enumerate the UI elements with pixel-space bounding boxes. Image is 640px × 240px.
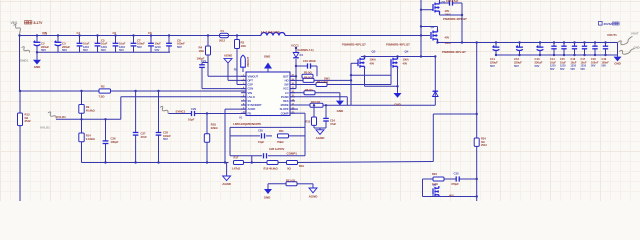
resistor R19: [287, 161, 298, 165]
svg-text:50V: 50V: [101, 48, 106, 52]
svg-text:50V: 50V: [571, 67, 576, 71]
svg-text:UVLO: UVLO: [248, 95, 255, 99]
capacitor C11: [495, 41, 497, 43]
diode D1: [295, 48, 297, 53]
svg-text:FB: FB: [248, 111, 252, 115]
svg-text:R10 0Ω: R10 0Ω: [311, 100, 321, 104]
resistor R8: [290, 92, 304, 94]
transistor Q4: [390, 59, 392, 66]
resistor R5b on BST row: [302, 74, 313, 78]
svg-text:RES: RES: [283, 99, 289, 103]
ic U1 LM5122: [246, 72, 290, 116]
wire output cap bottom rail: [496, 54, 618, 56]
capacitor C28: [263, 153, 265, 158]
svg-text:VIN/OUT: VIN/OUT: [246, 56, 250, 67]
capacitor C16: [573, 41, 575, 43]
capacitor C17: [583, 41, 585, 43]
capacitor C21: [201, 63, 203, 65]
svg-text:40V: 40V: [449, 194, 454, 198]
svg-text:AGND: AGND: [316, 136, 326, 140]
agnd mid right: [319, 128, 321, 130]
svg-text:100pF: 100pF: [111, 140, 119, 144]
capacitor C27: [135, 91, 137, 133]
svg-text:R7 4.7kΩ: R7 4.7kΩ: [317, 80, 329, 84]
wire input cap bottom rail: [37, 51, 170, 53]
svg-text:GND: GND: [34, 65, 41, 69]
svg-text:C22 4.7uF: C22 4.7uF: [446, 0, 459, 3]
svg-text:AGND: AGND: [309, 195, 319, 199]
svg-text:C4: C4: [77, 31, 81, 35]
svg-text:R2: R2: [101, 85, 105, 89]
resistor R9: [80, 90, 82, 92]
svg-text:AGND: AGND: [222, 182, 232, 186]
svg-text:40.9kΩ: 40.9kΩ: [86, 109, 96, 113]
resistor R21 bridge: [268, 183, 286, 185]
resistor R4: [207, 34, 209, 36]
wire comp loop: [230, 126, 305, 128]
resistor R17: [234, 161, 244, 165]
wire SLOPE stub: [290, 108, 298, 110]
svg-text:GND: GND: [614, 61, 621, 65]
testpoint TP1 at U1 top: [241, 55, 246, 67]
svg-text:R17: R17: [234, 156, 239, 160]
capacitor C30: [455, 176, 457, 181]
svg-text:50V: 50V: [41, 48, 46, 52]
svg-text:Q3: Q3: [372, 50, 376, 54]
port SYNC1 squiggle: [160, 106, 168, 113]
svg-text:50V: 50V: [535, 64, 540, 68]
ground power: [397, 92, 399, 94]
svg-text:BST: BST: [283, 74, 289, 78]
label 36V6A output: [599, 22, 603, 26]
wire VCC pin: [290, 88, 296, 90]
capacitor C19: [296, 65, 308, 67]
transistor Q5: [432, 188, 434, 194]
svg-text:40V: 40V: [445, 9, 450, 13]
port GND2 squiggle: [619, 49, 635, 55]
svg-text:VOUT: VOUT: [631, 32, 639, 36]
svg-text:F1: F1: [221, 29, 225, 33]
svg-text:LM5122QMK/NOPB: LM5122QMK/NOPB: [233, 122, 261, 126]
svg-text:PSMN0R2-40PL127: PSMN0R2-40PL127: [442, 50, 466, 54]
svg-text:GND: GND: [634, 46, 640, 50]
wire SW from L1: [285, 35, 430, 37]
wire LO to gnd: [339, 93, 341, 101]
label input 8-17V: [25, 21, 28, 24]
svg-text:SYNC1: SYNC1: [176, 109, 186, 113]
capacitor C26: [105, 119, 107, 141]
svg-text:C8: C8: [148, 31, 152, 35]
wire fb tap: [432, 114, 434, 162]
svg-text:7.5Ω: 7.5Ω: [99, 95, 106, 99]
svg-text:470pF: 470pF: [451, 182, 459, 186]
port VOUT2 squiggle: [618, 37, 633, 45]
wire R3 to CSP pin: [236, 60, 238, 85]
svg-text:40V: 40V: [445, 36, 450, 40]
capacitor C24: [325, 104, 327, 106]
agnd on bus: [226, 163, 228, 177]
wire VOUT rail: [438, 42, 618, 44]
svg-text:D1: D1: [300, 53, 304, 57]
svg-text:PSMN0R2-40PL127: PSMN0R2-40PL127: [386, 43, 410, 47]
svg-text:R19: R19: [299, 164, 304, 168]
resistor R24: [474, 138, 479, 146]
resistor R12: [313, 104, 315, 106]
wire VIN rail: [20, 35, 221, 37]
svg-text:100A: 100A: [403, 57, 409, 61]
svg-text:100A: 100A: [370, 57, 376, 61]
svg-text:VIN: VIN: [42, 32, 48, 36]
svg-text:C6: C6: [113, 31, 117, 35]
svg-text:50V: 50V: [83, 48, 88, 52]
svg-text:PGND: PGND: [281, 95, 289, 99]
wire Q2 drain: [437, 27, 439, 30]
wire Q2 source to vout rail: [437, 42, 439, 43]
wire Q3 Q4 sources link: [364, 69, 366, 87]
capacitor C5: [96, 34, 98, 36]
capacitor C18: [594, 41, 596, 43]
port VIN1: [14, 24, 21, 34]
wire Q1 source to right bus: [439, 14, 441, 16]
resistor R3: [236, 34, 238, 36]
svg-text:CSN: CSN: [248, 87, 254, 91]
svg-text:22kΩ: 22kΩ: [211, 126, 219, 130]
svg-text:50V: 50V: [514, 64, 519, 68]
svg-text:GND1: GND1: [20, 59, 29, 63]
capacitor C15: [563, 41, 565, 43]
svg-text:50V: 50V: [560, 67, 565, 71]
svg-text:C20: C20: [258, 129, 263, 133]
svg-text:50V: 50V: [591, 64, 596, 68]
svg-text:R6 0Ω: R6 0Ω: [304, 76, 312, 80]
transistor Q2: [430, 32, 432, 39]
wire R12 C24 join: [314, 127, 326, 129]
capacitor C3: [57, 34, 59, 36]
svg-text:47uF: 47uF: [330, 122, 336, 126]
svg-text:R16 49.9kΩ: R16 49.9kΩ: [264, 166, 279, 170]
svg-text:50V: 50V: [119, 48, 124, 52]
svg-text:50V: 50V: [155, 48, 160, 52]
resistor R6: [290, 79, 303, 81]
resistor R13: [19, 91, 21, 113]
svg-text:COMP1: COMP1: [287, 151, 298, 155]
svg-text:SS: SS: [248, 99, 252, 103]
svg-text:PSMN0R2-40PL127: PSMN0R2-40PL127: [443, 17, 467, 21]
capacitor C19b: [604, 41, 606, 43]
capacitor C4: [78, 34, 80, 36]
capacitor C12: [518, 41, 520, 43]
ground output: [617, 55, 619, 57]
resistor R10: [310, 103, 323, 107]
ground input GND: [36, 51, 38, 53]
svg-text:GND: GND: [394, 102, 401, 106]
svg-text:50V: 50V: [550, 67, 555, 71]
port UVLO1: [48, 112, 56, 118]
wire SW vertical: [420, 0, 422, 57]
wire q5 gate stub: [432, 195, 434, 197]
svg-text:Q4: Q4: [405, 50, 409, 54]
svg-text:VIN/OUT: VIN/OUT: [248, 74, 259, 78]
svg-text:R21 0Ω: R21 0Ω: [286, 179, 296, 183]
svg-text:VOUT1: VOUT1: [607, 33, 617, 37]
svg-text:R23: R23: [432, 172, 437, 176]
svg-text:C21: C21: [201, 59, 206, 63]
transistor Q3: [357, 59, 359, 66]
port GND1: [22, 47, 30, 53]
transistor Q1: [432, 5, 434, 7]
svg-text:SYNCIN/RT: SYNCIN/RT: [248, 103, 262, 107]
resistor R7gate: [316, 83, 327, 87]
inductor L1: [261, 33, 285, 36]
wire MODE row: [290, 104, 310, 106]
capacitor C2: [36, 34, 38, 36]
wire UVLO: [56, 118, 121, 120]
wire snubber top: [459, 178, 477, 180]
svg-text:LO: LO: [285, 91, 289, 95]
wire comp to bus: [251, 156, 253, 163]
svg-text:PSMN0R2-40PL127: PSMN0R2-40PL127: [342, 43, 366, 47]
capacitor C13: [539, 41, 541, 43]
svg-text:10Ω: 10Ω: [199, 49, 205, 53]
resistor R2 7.5ohm: [99, 89, 111, 93]
svg-text:MODE: MODE: [281, 103, 289, 107]
svg-text:2512: 2512: [481, 143, 487, 147]
wire left drop below R13: [19, 138, 21, 201]
svg-text:C19 100nF: C19 100nF: [303, 59, 316, 63]
svg-text:50V: 50V: [163, 137, 168, 141]
wire Q1 drain top: [439, 0, 441, 2]
svg-text:50V: 50V: [62, 48, 67, 52]
svg-text:70kΩ: 70kΩ: [277, 140, 284, 144]
svg-text:VIN1: VIN1: [11, 21, 18, 25]
svg-text:2512: 2512: [25, 119, 32, 123]
wire R4 to pin: [208, 75, 246, 77]
wire vout right end: [617, 43, 619, 56]
resistor R16: [267, 161, 278, 165]
svg-text:C28 1uF50V: C28 1uF50V: [269, 147, 285, 151]
wire PGND: [290, 96, 347, 98]
ground PGND: [339, 100, 341, 102]
resistor R23: [433, 177, 444, 181]
resistor R14: [81, 119, 83, 133]
wire BST: [290, 75, 296, 77]
svg-text:COMP: COMP: [281, 111, 289, 115]
diode D2 on riser: [433, 92, 439, 97]
svg-text:CSP: CSP: [248, 83, 254, 87]
wire Q3 gate route: [350, 63, 352, 105]
wire SW rail: [361, 56, 435, 58]
svg-text:OPT: OPT: [248, 79, 254, 83]
svg-text:VIN: VIN: [248, 91, 252, 95]
wire mode riser to SW rail: [434, 57, 436, 106]
svg-text:2012: 2012: [219, 39, 226, 43]
wire vout drop to R24: [476, 43, 478, 202]
wire VIN left drop: [19, 36, 21, 92]
agnd R21 right: [309, 188, 317, 193]
svg-text:GND: GND: [337, 109, 344, 113]
svg-text:40V: 40V: [370, 62, 375, 66]
svg-text:UVLO1: UVLO1: [56, 115, 66, 119]
wire mid rail: [19, 90, 21, 92]
svg-text:C30: C30: [454, 172, 459, 176]
wire cs link: [351, 74, 391, 76]
svg-text:R12: R12: [306, 120, 311, 124]
resistor R15: [278, 134, 289, 138]
capacitor C6: [114, 34, 116, 36]
agnd near OPT: [227, 63, 229, 80]
wire AGND pin drop: [225, 108, 245, 110]
wire Q4 gate route: [390, 63, 392, 84]
ground above U1: [267, 68, 269, 72]
capacitor C8: [150, 34, 152, 36]
svg-text:50V: 50V: [602, 64, 607, 68]
svg-text:8-17V: 8-17V: [34, 21, 44, 25]
svg-text:SLOPE: SLOPE: [280, 107, 289, 111]
svg-text:47nF: 47nF: [141, 135, 148, 139]
svg-text:VCC1: VCC1: [291, 44, 299, 48]
svg-text:1.47kΩ: 1.47kΩ: [232, 166, 241, 170]
svg-text:VCC: VCC: [283, 87, 289, 91]
svg-text:0.16kΩ: 0.16kΩ: [86, 137, 96, 141]
capacitor C22: [440, 2, 450, 4]
svg-text:R8 0Ω: R8 0Ω: [305, 88, 313, 92]
fuse F1: [220, 33, 229, 38]
svg-text:15pF: 15pF: [258, 140, 264, 144]
svg-text:50V: 50V: [490, 64, 495, 68]
wire FB bus: [82, 162, 229, 164]
wire Q1 gate stub: [421, 9, 433, 11]
resistor R18: [206, 112, 208, 114]
wire UVLO riser: [120, 97, 122, 120]
svg-text:50V: 50V: [581, 67, 586, 71]
wire PGND drop to loop: [346, 97, 348, 106]
svg-text:(4148WS-7-F): (4148WS-7-F): [297, 48, 314, 52]
ground R21 left: [264, 189, 272, 194]
svg-text:SW1: SW1: [324, 76, 330, 80]
capacitor C9: [168, 34, 170, 36]
wire snubber left: [422, 179, 424, 197]
svg-text:HO: HO: [285, 79, 289, 83]
wire row 84.5: [290, 84, 316, 86]
capacitor C14: [553, 41, 555, 43]
net label VCC1: [295, 47, 297, 49]
svg-text:40V: 40V: [403, 62, 408, 66]
svg-text:GND: GND: [264, 196, 271, 200]
wire right bus: [461, 3, 463, 43]
svg-text:GND: GND: [264, 55, 270, 59]
svg-text:R11: R11: [279, 129, 284, 133]
svg-text:10Ω: 10Ω: [241, 44, 247, 48]
capacitor C20: [261, 133, 263, 138]
svg-text:R5 0Ω: R5 0Ω: [304, 71, 312, 75]
svg-text:50V: 50V: [137, 45, 142, 49]
svg-text:AGND: AGND: [248, 107, 256, 111]
capacitor C25: [158, 91, 160, 133]
svg-text:36V6A: 36V6A: [604, 22, 614, 26]
svg-text:Q5: Q5: [433, 183, 437, 187]
svg-text:C29: C29: [191, 107, 196, 111]
svg-text:L1 2.2uH #6A: L1 2.2uH #6A: [261, 30, 281, 34]
svg-text:10pF: 10pF: [188, 118, 195, 122]
svg-text:UVLO1: UVLO1: [40, 126, 50, 130]
svg-text:AGND: AGND: [224, 54, 232, 58]
capacitor C29: [169, 113, 192, 115]
svg-text:SW: SW: [284, 83, 289, 87]
capacitor C7: [132, 34, 134, 36]
svg-text:50V: 50V: [177, 45, 182, 49]
